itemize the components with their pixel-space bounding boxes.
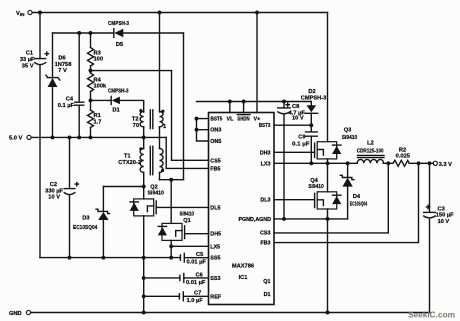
- node junction R1 on 5V rail: [89, 135, 93, 139]
- svg-text:C5: C5: [196, 252, 203, 258]
- svg-text:3.3 V: 3.3 V: [439, 162, 452, 168]
- svg-text:1.7: 1.7: [94, 119, 102, 125]
- wire D5 right drop: [183, 33, 185, 180]
- wire T1 left bottom to Q2: [143, 173, 145, 199]
- svg-text:REF: REF: [210, 294, 221, 300]
- svg-text:SS3: SS3: [210, 276, 220, 282]
- svg-text:ON5: ON5: [210, 139, 221, 145]
- svg-text:R1: R1: [94, 113, 101, 119]
- capacitor C2 330uF: [64, 188, 75, 190]
- wire R4-R1 link: [90, 92, 92, 111]
- transformer T1 left winding: [140, 149, 144, 173]
- svg-text:70: 70: [133, 123, 139, 129]
- svg-text:150 µF: 150 µF: [436, 213, 454, 219]
- wire D1 line: [91, 100, 144, 112]
- svg-text:10 V: 10 V: [438, 219, 450, 225]
- svg-text:D3: D3: [82, 216, 89, 222]
- svg-text:LX5: LX5: [210, 244, 220, 250]
- svg-text:EC10SQ04: EC10SQ04: [350, 202, 368, 208]
- resistor R4 100k: [88, 73, 94, 91]
- transformer T2 left winding: [140, 112, 144, 127]
- svg-text:0.01 µF: 0.01 µF: [186, 280, 206, 286]
- wire REF line: [144, 295, 180, 297]
- svg-text:100k: 100k: [94, 83, 107, 89]
- wire Q4 drain to LX3: [327, 163, 329, 192]
- wire Q1 drain drop: [170, 180, 172, 224]
- wire FB3 line: [274, 163, 419, 242]
- svg-text:0.025: 0.025: [396, 154, 410, 160]
- node junction R3 top: [89, 31, 93, 35]
- svg-text:SS5: SS5: [210, 256, 220, 262]
- wire V+ feed: [256, 13, 258, 113]
- node junction D3 link on Q2 drain: [142, 185, 146, 189]
- svg-text:DH3: DH3: [260, 150, 271, 156]
- svg-text:Q1: Q1: [183, 218, 191, 224]
- inductor L2 core bars: [358, 155, 385, 157]
- wire CS3 line: [274, 163, 388, 233]
- svg-text:C7: C7: [194, 291, 201, 297]
- svg-text:33 µF: 33 µF: [20, 57, 35, 63]
- diode D5 CMPSH-3: [113, 29, 115, 38]
- capacitor C3 150uF: [429, 163, 431, 312]
- wire D3 top link: [103, 186, 143, 188]
- svg-text:BST5: BST5: [211, 117, 223, 123]
- wire Q3 source to LX3: [327, 159, 329, 163]
- node junction Q4 chain on GND: [326, 311, 330, 315]
- node junction R3/R4 to CS5: [89, 69, 93, 73]
- node junction CS3 tap: [386, 161, 390, 165]
- transistor Q1 Si9410: [158, 212, 194, 241]
- svg-text:C4: C4: [66, 97, 74, 103]
- wire VL rail y101.5: [197, 101, 312, 103]
- svg-text:GND: GND: [9, 311, 22, 317]
- resistor R2 0.025: [393, 160, 409, 166]
- capacitor C8 4.7uF: [283, 102, 285, 219]
- svg-text:DL3: DL3: [260, 198, 270, 204]
- wire FB5 drop: [166, 137, 208, 168]
- svg-text:CS5: CS5: [210, 158, 221, 164]
- svg-text:CMPSH-3: CMPSH-3: [301, 95, 327, 101]
- node junction REF tap: [142, 294, 146, 298]
- node junction LX5: [169, 244, 173, 248]
- diode D3 EC10SQ04: [96, 209, 110, 213]
- svg-text:L2: L2: [367, 140, 374, 146]
- wire zener branch horizontal y33: [53, 32, 184, 34]
- capacitor C6 0.01uF: [180, 274, 184, 283]
- wire GND rail: [31, 312, 430, 314]
- svg-text:ON3: ON3: [210, 128, 221, 134]
- node junction Q2 source on bus: [142, 256, 146, 260]
- svg-text:C2: C2: [50, 182, 57, 188]
- node junction C3 tap: [428, 161, 432, 165]
- node junction VL: [228, 100, 232, 104]
- node T2 right phasing dot: [161, 110, 164, 113]
- node junction C2 on 5V rail: [68, 135, 72, 139]
- svg-text:CMPSH-3: CMPSH-3: [108, 88, 129, 94]
- svg-text:0.1 µF: 0.1 µF: [58, 103, 75, 109]
- wire DH3 to Q3 gate: [274, 151, 314, 153]
- svg-text:1: 1: [163, 124, 166, 130]
- svg-text:SHDN: SHDN: [237, 117, 249, 123]
- svg-text:35 V: 35 V: [22, 64, 34, 70]
- wire T2R top feed from VIN: [159, 13, 161, 113]
- wire R3-R4 link: [90, 66, 92, 73]
- node junction C8 on PGND: [282, 217, 286, 221]
- node junction T2 right on VIN rail: [158, 11, 162, 15]
- svg-text:D2: D2: [308, 89, 315, 95]
- IC1 MAX786 box: [209, 113, 275, 305]
- wire T-right column link: [159, 127, 161, 149]
- node junction BST5: [195, 117, 199, 121]
- svg-text:Q1: Q1: [263, 279, 270, 285]
- node T1 left phasing dot: [139, 147, 142, 150]
- wire D6 zener vertical: [52, 33, 54, 137]
- resistor R1 1.7: [88, 110, 94, 128]
- transistor Q2 Si9410: [130, 185, 164, 216]
- svg-text:D4: D4: [353, 194, 361, 200]
- wire C4 branch vertical: [78, 33, 80, 137]
- node junction Q3/Q4 on LX3: [326, 161, 330, 165]
- node junction ON3: [195, 128, 199, 132]
- wire C2 branch: [69, 137, 71, 257]
- svg-text:MAX786: MAX786: [232, 264, 254, 270]
- svg-text:0.1 µF: 0.1 µF: [292, 142, 310, 148]
- wire Q4 source down to GND: [327, 209, 329, 313]
- svg-text:R2: R2: [399, 147, 406, 153]
- node junction Q1 source on bus: [169, 256, 173, 260]
- svg-text:Si9410: Si9410: [147, 190, 164, 196]
- wire BST5/ON3/ON5 bracket: [197, 119, 209, 141]
- wire VIN drop to Q3 drain: [327, 13, 329, 142]
- svg-text:Si9410: Si9410: [308, 184, 324, 190]
- wire T1 right bottom: [159, 173, 161, 180]
- svg-text:DH5: DH5: [210, 232, 221, 238]
- node junction R4/R1/D1: [89, 98, 93, 102]
- capacitor C9 0.1uF: [306, 132, 318, 136]
- svg-text:Si9410: Si9410: [342, 135, 358, 141]
- diode D2 CMPSH-3: [310, 102, 312, 106]
- wire CS5 sense drop: [172, 71, 209, 161]
- svg-text:Q3: Q3: [344, 127, 352, 133]
- node junction D3 on bus: [101, 256, 105, 260]
- svg-text:Q4: Q4: [310, 178, 318, 184]
- node junction Q1 drain tap: [169, 178, 173, 182]
- svg-text:LX3: LX3: [261, 161, 271, 167]
- svg-text:C6: C6: [196, 272, 203, 278]
- wire Q1 gate to DH5: [185, 233, 209, 235]
- svg-text:VIN: VIN: [16, 11, 25, 17]
- diode D1 CMPSH-3: [110, 96, 112, 104]
- wire CS5 sense line horizontal: [91, 70, 172, 72]
- transistor Q3 Si9410: [315, 127, 358, 159]
- svg-text:10 V: 10 V: [292, 116, 304, 122]
- svg-text:7 V: 7 V: [58, 68, 67, 74]
- wire D3 branch vertical: [102, 187, 104, 258]
- inductor L2 CDR125-100: [357, 159, 383, 163]
- wire T-left column link: [143, 127, 145, 149]
- capacitor C1: [35, 58, 46, 60]
- node 3.3V terminal: [433, 161, 437, 165]
- wire DL3 to Q4 gate: [274, 199, 314, 201]
- node junction D4 on LX3: [346, 161, 350, 165]
- node junction Q2 chain on GND: [142, 311, 146, 315]
- node junction C1 on VIN rail: [38, 11, 42, 15]
- wire PGND bus y257.6: [40, 257, 180, 259]
- svg-text:0.01 µF: 0.01 µF: [187, 260, 207, 266]
- svg-text:CS3: CS3: [260, 231, 271, 237]
- node T1 right phasing dot: [161, 169, 164, 172]
- svg-text:EC10SQ04: EC10SQ04: [73, 225, 98, 231]
- diode D4 EC10SQ04: [347, 163, 349, 176]
- svg-text:Si9410: Si9410: [179, 212, 194, 218]
- node junction Q4/PGND: [326, 217, 330, 221]
- node junction C4 on 5V rail: [77, 135, 81, 139]
- wire LX5 line: [171, 245, 208, 247]
- wire SS3 line: [144, 277, 180, 279]
- wire VIN top rail: [32, 12, 327, 14]
- node junction C2 on bus: [68, 256, 72, 260]
- node junction T-columns on 5V rail: [142, 135, 146, 139]
- wire BST3 line: [274, 124, 311, 126]
- transformer T1 right winding: [160, 149, 164, 173]
- node junction FB3 tap: [417, 161, 421, 165]
- diode D6 1N758 zener: [46, 75, 60, 80]
- transistor Q4 Si9410: [308, 178, 341, 209]
- svg-text:T1: T1: [124, 154, 131, 160]
- wire R1 bottom: [90, 128, 92, 138]
- svg-text:PGND,AGND: PGND,AGND: [239, 217, 272, 223]
- svg-text:CMPSH-3: CMPSH-3: [108, 21, 129, 27]
- svg-text:C3: C3: [438, 206, 445, 212]
- svg-text:SeekIC.com: SeekIC.com: [408, 310, 455, 320]
- svg-text:DL5: DL5: [210, 205, 220, 211]
- capacitor C5 0.01uF: [180, 253, 184, 262]
- wire Q2 gate to DL5: [156, 206, 208, 208]
- wire R-chain vertical top: [90, 33, 92, 48]
- svg-text:V+: V+: [254, 117, 261, 123]
- svg-text:BST3: BST3: [259, 123, 271, 129]
- svg-text:CDR125-100: CDR125-100: [357, 148, 384, 154]
- svg-text:IC1: IC1: [239, 275, 248, 281]
- svg-text:T2: T2: [132, 117, 139, 123]
- wire Q2 source down: [143, 216, 145, 313]
- capacitor C4: [75, 102, 84, 105]
- wire switch node horizontal y179.7: [160, 179, 184, 181]
- svg-text:D1: D1: [112, 107, 119, 113]
- wire SHDN stub: [243, 102, 245, 113]
- wire Q1 source down: [170, 240, 172, 257]
- svg-text:1N758: 1N758: [55, 62, 72, 68]
- node junction SS3 tap: [142, 276, 146, 280]
- svg-text:FB3: FB3: [260, 241, 270, 247]
- wire LX3 output line: [274, 162, 433, 164]
- svg-text:D1: D1: [264, 292, 271, 298]
- node junction C9 on LX3: [309, 161, 313, 165]
- node junction BST3/C9: [309, 123, 313, 127]
- node junction V+ on VIN rail: [255, 11, 259, 15]
- svg-text:5.0 V: 5.0 V: [9, 136, 22, 142]
- svg-text:330 µF: 330 µF: [45, 188, 63, 194]
- node junction D6 on 5V rail: [51, 135, 55, 139]
- wire PGND line: [274, 218, 348, 220]
- wire VL stub: [229, 102, 231, 113]
- svg-text:1.0 µF: 1.0 µF: [187, 298, 204, 304]
- svg-text:D5: D5: [116, 42, 123, 48]
- svg-text:CTX20-2: CTX20-2: [118, 160, 141, 166]
- svg-text:FB5: FB5: [210, 166, 220, 172]
- svg-text:C1: C1: [26, 51, 33, 57]
- resistor R3 100: [88, 48, 94, 66]
- node junction C8 top: [282, 100, 286, 104]
- svg-text:10 V: 10 V: [48, 195, 60, 201]
- node junction C4 top: [77, 31, 81, 35]
- svg-text:VL: VL: [227, 117, 235, 123]
- transformer T1 core: [150, 146, 153, 174]
- svg-text:C9: C9: [298, 134, 305, 140]
- node junction SHDN: [242, 100, 246, 104]
- svg-text:C8: C8: [292, 104, 299, 110]
- svg-text:D6: D6: [58, 56, 65, 62]
- node T2 left phasing dot: [139, 109, 142, 112]
- transformer T2 right winding: [160, 112, 164, 127]
- capacitor C7 1.0uF: [179, 292, 183, 301]
- wire 5V rail: [31, 136, 166, 138]
- transformer T2 core: [150, 110, 153, 129]
- svg-text:100: 100: [94, 56, 104, 62]
- wire C1 branch vertical: [39, 13, 41, 258]
